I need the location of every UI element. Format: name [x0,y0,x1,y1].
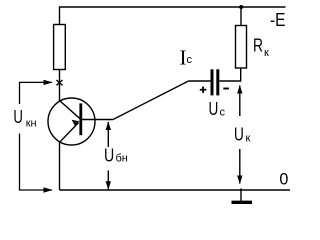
ground stem [240,189,242,203]
wire from top rail down to R1 [59,6,61,24]
capacitor C1 right plate [216,69,219,95]
svg-text:0: 0 [279,169,288,188]
Ukn bracket (left measurement bracket) [20,82,53,104]
transistor VT1 circle [48,98,95,145]
transistor VT1 collector line [60,101,81,119]
Ukn bracket lower segment [20,134,53,191]
wire from R1 to transistor base node [59,70,61,102]
junction node dot at Rk / top rail [239,5,243,9]
wire base bar to bend [82,119,113,121]
wire capacitor to Rk [219,68,240,81]
resistor Rk (collector resistor, right) [236,26,247,69]
svg-text:с: с [220,107,226,119]
wire to capacitor left plate [189,80,211,82]
node X mark on base wire [57,80,63,85]
svg-text:I: I [180,46,187,70]
svg-text:к: к [246,133,251,145]
wire bottom rail 0 [60,189,291,191]
wire top rail -E [60,6,286,8]
svg-text:R: R [253,36,263,56]
svg-text:U: U [13,107,23,127]
label minus stroke [223,88,229,90]
svg-text:U: U [234,125,244,145]
Uk arrow line lower [239,149,241,184]
transistor VT1 emitter line [60,123,79,143]
arrowhead Ubn down [106,181,111,190]
svg-text:к: к [264,47,269,59]
svg-text:бн: бн [116,153,128,165]
arrowhead Uk up [237,85,242,94]
arrowhead Ukn top [44,80,53,85]
svg-text:U: U [104,146,114,166]
arrowhead Uk down [237,176,242,185]
svg-text:с: с [187,54,193,66]
transistor VT1 base bar [79,103,82,135]
label plus stroke v [202,87,204,94]
ground bar [232,201,253,204]
arrowhead Ubn up [106,122,111,131]
svg-text:кн: кн [26,118,37,130]
Ubn arrow line lower [107,171,109,190]
wire diagonal to capacitor level [113,81,189,120]
capacitor C1 left plate [211,69,214,95]
Ubn arrow line upper [107,122,109,147]
arrowhead Ukn bottom [44,187,53,192]
resistor R1 (base resistor, left) [54,25,66,70]
svg-text:-E: -E [270,10,286,30]
wire emitter to bottom rail [59,142,61,190]
wire Rk to top rail [240,7,242,26]
label plus stroke h [200,89,207,91]
Uk arrow line upper [239,86,241,117]
arrowhead transistor emitter (points to base bar) [72,120,80,127]
svg-text:U: U [209,99,219,119]
